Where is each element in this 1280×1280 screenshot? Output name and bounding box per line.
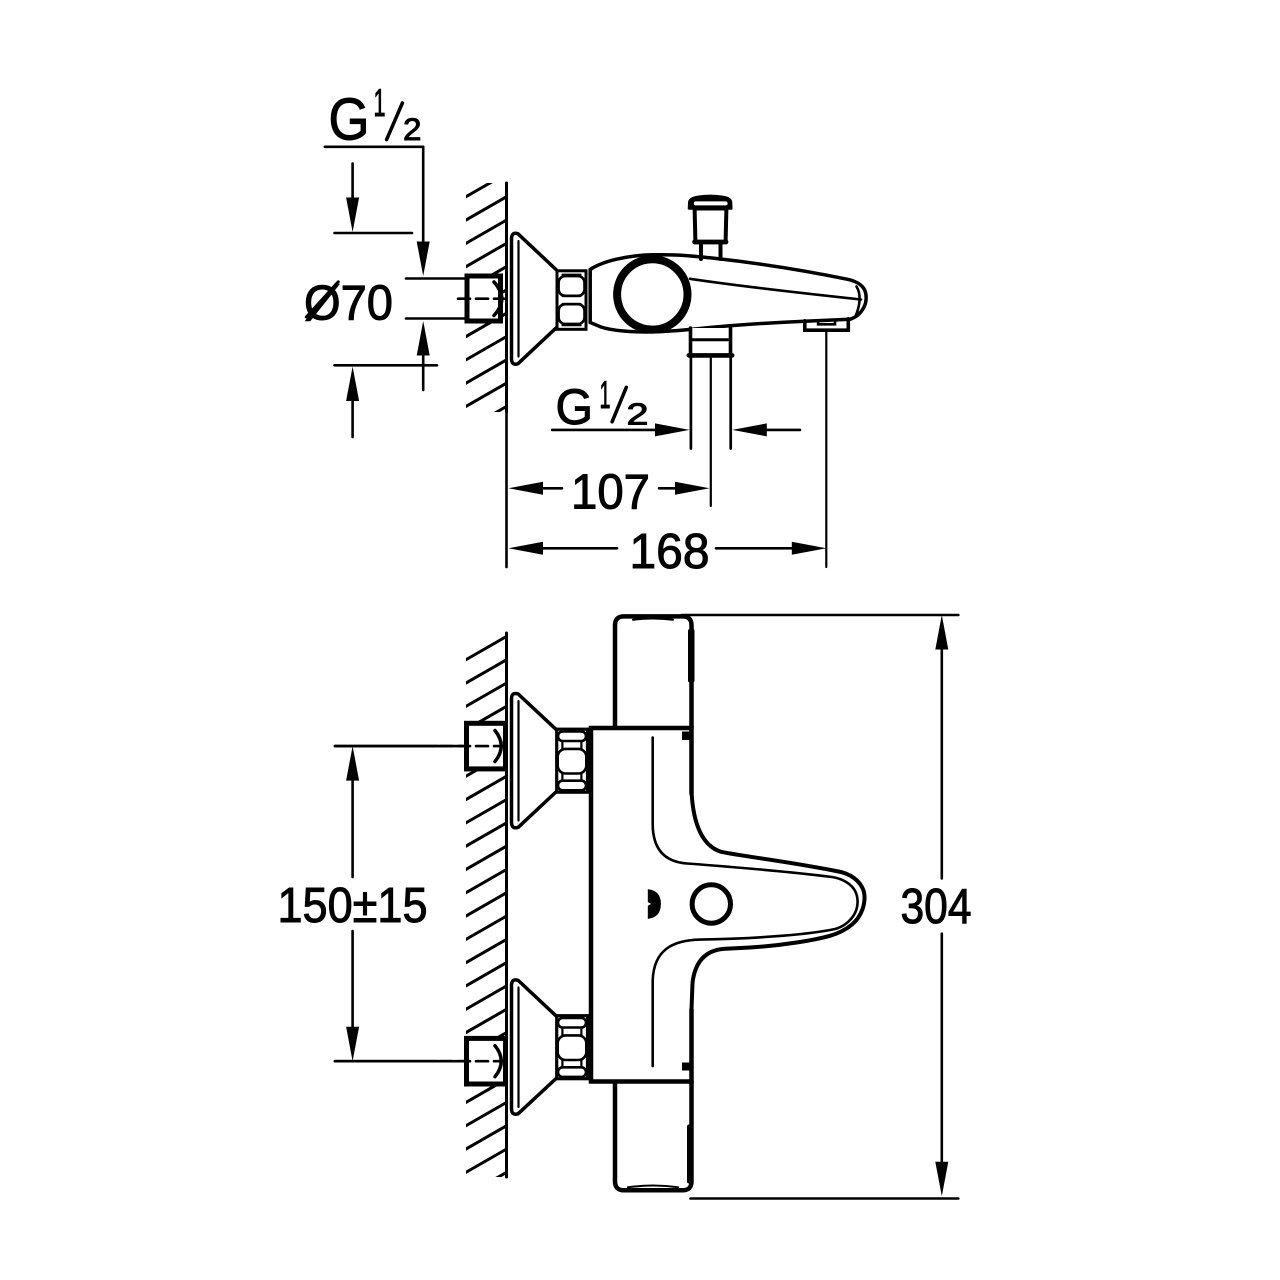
svg-text:304: 304 [901, 880, 972, 934]
svg-text:G: G [329, 87, 370, 153]
svg-text:107: 107 [571, 465, 650, 519]
svg-text:2: 2 [627, 397, 649, 432]
svg-text:2: 2 [403, 111, 422, 147]
svg-text:1: 1 [374, 82, 386, 125]
svg-text:168: 168 [630, 525, 710, 579]
svg-text:1: 1 [600, 374, 611, 417]
svg-text:G: G [556, 379, 594, 435]
svg-text:150±15: 150±15 [278, 879, 428, 933]
